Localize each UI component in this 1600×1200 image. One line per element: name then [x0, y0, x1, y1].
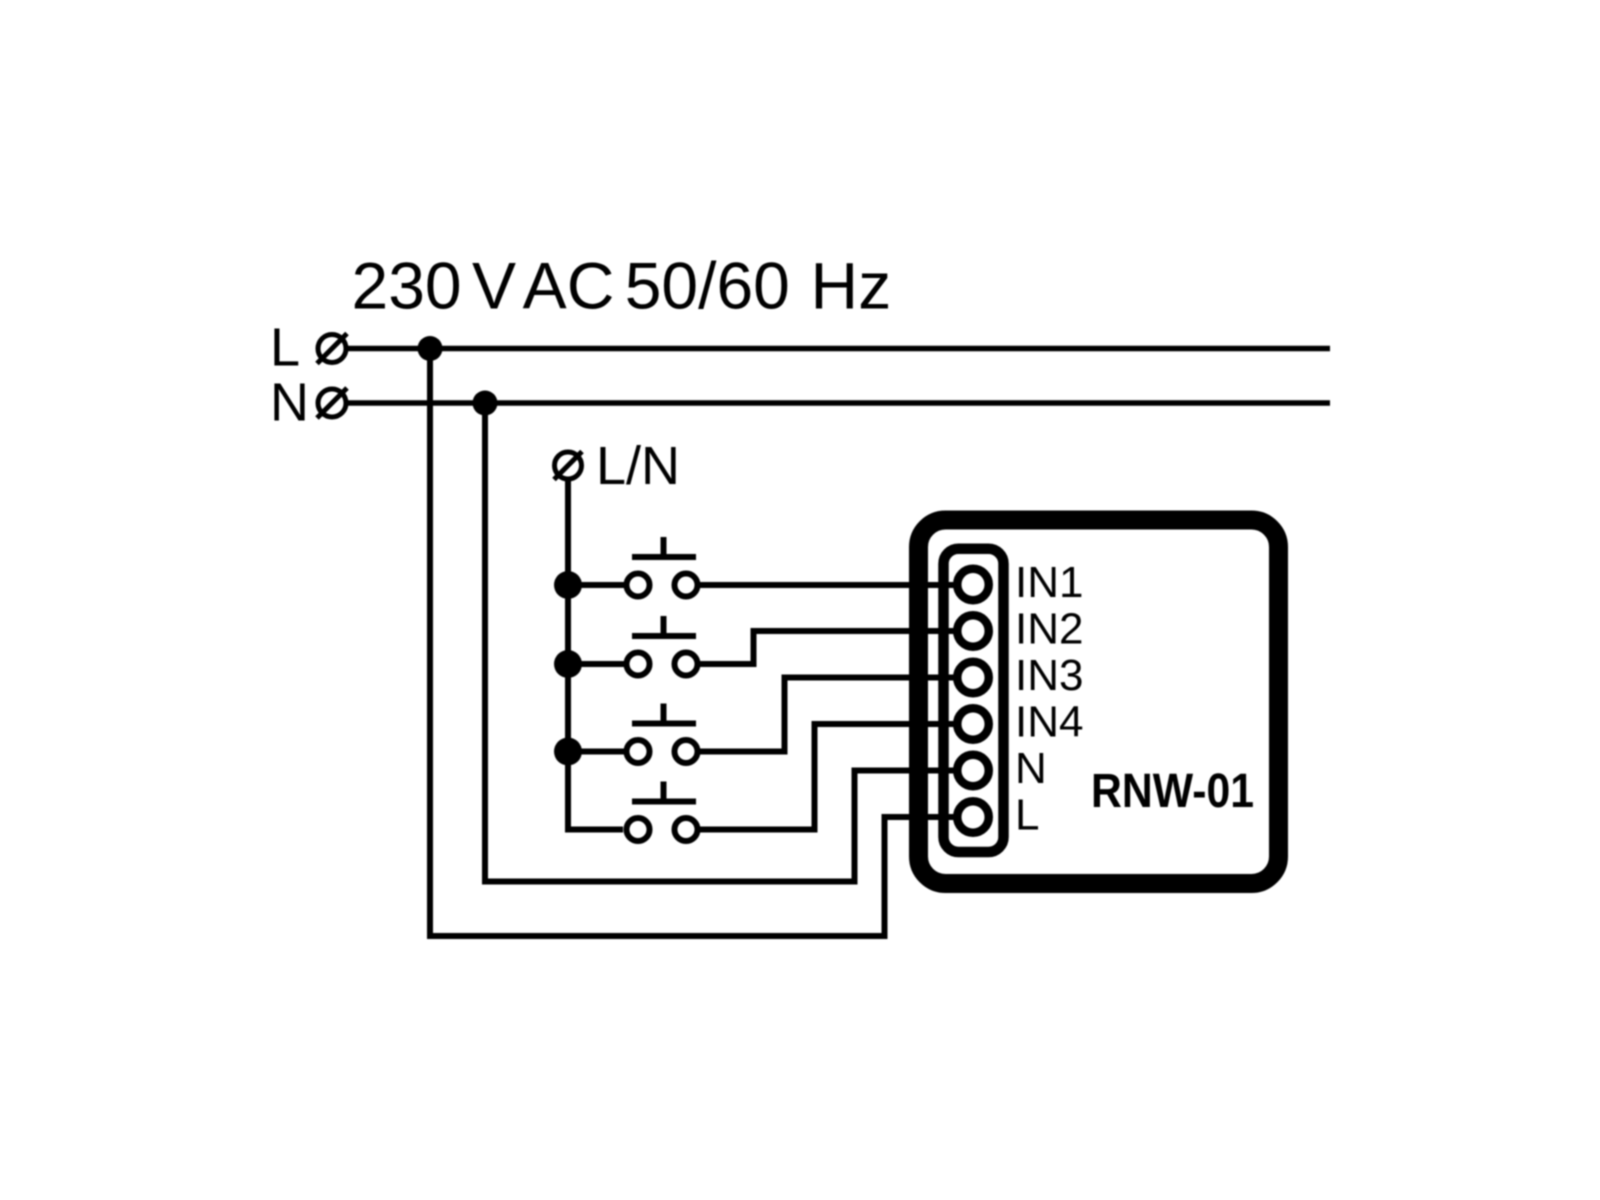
device terminal strip	[944, 549, 1004, 852]
wire L power line	[348, 346, 1330, 352]
pushbutton S4	[627, 782, 698, 842]
junction dot on N line	[473, 391, 498, 416]
svg-text:IN3: IN3	[1015, 651, 1083, 700]
terminal IN3	[957, 662, 989, 694]
wire S4 to IN4	[700, 724, 957, 830]
junction dot bus 2	[554, 650, 582, 678]
wire switch bus	[568, 479, 623, 830]
svg-text:L/N: L/N	[596, 436, 680, 496]
pushbutton S3	[568, 704, 698, 764]
terminal L/N	[554, 452, 582, 480]
svg-text:RNW-01: RNW-01	[1091, 765, 1254, 818]
wire N feeder to device N terminal	[485, 403, 957, 882]
terminal L	[957, 801, 989, 833]
junction dot on L line	[418, 336, 443, 361]
pushbutton S1	[568, 537, 698, 597]
terminal N	[957, 755, 989, 787]
svg-text:IN1: IN1	[1015, 558, 1083, 607]
terminal IN4	[957, 708, 989, 740]
wire S1 to IN1	[700, 582, 957, 588]
wire S3 to IN3	[700, 678, 957, 752]
junction dot bus 1	[554, 571, 582, 599]
svg-text:N: N	[1015, 744, 1047, 793]
pushbutton S2	[568, 616, 698, 676]
junction dot bus 3	[554, 738, 582, 766]
svg-text:N: N	[270, 373, 309, 433]
svg-text:IN2: IN2	[1015, 605, 1083, 654]
svg-text:L: L	[1015, 791, 1039, 840]
wire S2 to IN2	[700, 631, 957, 664]
device RNW-01 body	[919, 520, 1279, 884]
terminal L	[317, 334, 347, 364]
svg-text:IN4: IN4	[1015, 698, 1083, 747]
terminal N	[317, 388, 347, 418]
wire N power line	[348, 400, 1330, 406]
svg-text:L: L	[270, 318, 300, 378]
terminal IN2	[957, 615, 989, 647]
wire L feeder to device L terminal	[430, 349, 957, 937]
svg-text:230 V AC 50/60 Hz: 230 V AC 50/60 Hz	[352, 249, 892, 323]
terminal IN1	[957, 569, 989, 601]
